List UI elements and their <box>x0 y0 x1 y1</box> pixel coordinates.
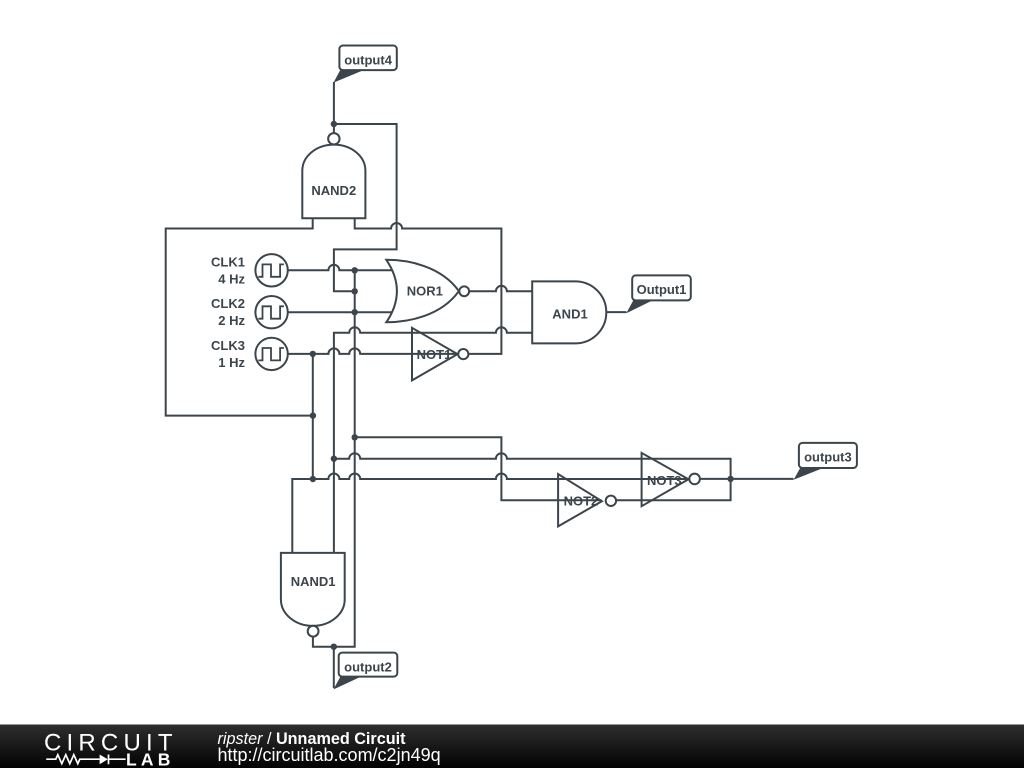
NOR gate NOR1 <box>386 260 469 323</box>
junction on CLK1 wire <box>352 267 358 273</box>
svg-text:NOT3: NOT3 <box>647 473 682 488</box>
svg-text:NOT2: NOT2 <box>564 494 599 509</box>
svg-text:NAND2: NAND2 <box>311 183 356 198</box>
wire CLK3 column x312.8 <box>312 354 314 479</box>
wire NAND2 output net jog <box>334 124 397 291</box>
junction at NOT2 feed row <box>352 434 358 440</box>
flag output2 <box>333 653 397 690</box>
wire NOT3 output to output3 <box>700 478 794 480</box>
junction at H3 row start <box>331 456 337 462</box>
junction at H4 row <box>310 476 316 482</box>
wire output2 stem <box>333 647 335 688</box>
svg-text:CLK1: CLK1 <box>211 254 245 269</box>
wire NAND1 left input lead + H4 row to NOT3 <box>292 474 689 553</box>
wire NAND2 right input lead + top bus east + right column to NOT1 output <box>355 218 502 354</box>
svg-text:CLK2: CLK2 <box>211 296 245 311</box>
junction at NAND2 output / output4 <box>331 121 337 127</box>
svg-text:NOT1: NOT1 <box>417 347 452 362</box>
wire AND1 output to Output1 <box>606 311 626 313</box>
svg-text:LAB: LAB <box>126 749 175 768</box>
flag Output1 <box>626 275 691 313</box>
junction at NAND1 output / output2 <box>331 644 337 650</box>
wire H3 row to NOT3 output column + NOT2 output return <box>334 453 731 500</box>
svg-text:output3: output3 <box>804 450 852 465</box>
footer bar <box>0 725 1024 768</box>
flag output3 <box>794 443 857 480</box>
AND gate AND1 <box>532 281 606 343</box>
svg-text:1 Hz: 1 Hz <box>218 355 245 370</box>
svg-text:NOR1: NOR1 <box>407 284 443 299</box>
svg-text:4 Hz: 4 Hz <box>218 271 245 286</box>
wire output4 stem <box>333 82 335 134</box>
svg-text:AND1: AND1 <box>552 307 587 322</box>
junction on NAND2 output jog <box>352 288 358 294</box>
wire CLK3 to NOT1 input <box>288 348 457 353</box>
wire long vertical column x354.7 down to NAND1 output row <box>313 270 355 646</box>
junction at NOT3 output <box>727 476 733 482</box>
wire CLK1 to NOR1 input <box>288 265 393 271</box>
wire H2 row to NOT2 input <box>355 437 602 500</box>
svg-text:Output1: Output1 <box>637 282 687 297</box>
junction on CLK3 wire <box>310 351 316 357</box>
wire CLK2 to NOR1 input <box>288 311 393 313</box>
junction on CLK2 wire <box>352 309 358 315</box>
logo diode <box>92 755 126 765</box>
wire AND1 lower input row + vertical down to NAND1 right input <box>334 327 532 553</box>
svg-text:CLK3: CLK3 <box>211 338 245 353</box>
svg-text:output4: output4 <box>344 52 392 67</box>
wire rect left + top-left bus + NAND2 left input lead <box>166 218 313 415</box>
flag output4 <box>334 46 397 83</box>
NAND gate NAND1 <box>281 553 345 637</box>
svg-text:2 Hz: 2 Hz <box>218 313 245 328</box>
clock source CLK2 <box>255 296 287 328</box>
NOT gate NOT1 <box>412 328 468 381</box>
svg-text:output2: output2 <box>344 659 392 674</box>
NOT gate NOT2 <box>558 474 616 526</box>
clock source CLK3 <box>255 338 287 370</box>
clock source CLK1 <box>255 254 287 286</box>
junction on rect bottom edge <box>310 412 316 418</box>
svg-text:NAND1: NAND1 <box>291 574 336 589</box>
NOT gate NOT3 <box>642 453 700 506</box>
logo resistor <box>46 755 92 764</box>
svg-text:http://circuitlab.com/c2jn49q: http://circuitlab.com/c2jn49q <box>218 745 441 765</box>
NAND gate NAND2 <box>302 133 365 218</box>
wire NOR1 output to AND1 upper input <box>469 286 532 292</box>
